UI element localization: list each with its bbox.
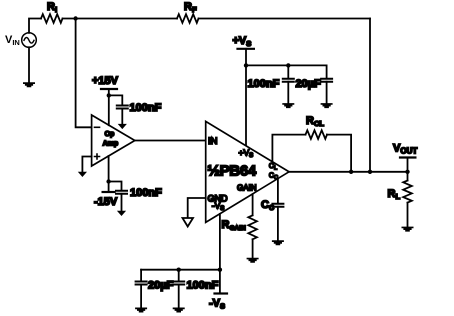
svg-text:20µF: 20µF [148, 280, 174, 292]
wire to 100nF cap [109, 182, 122, 191]
wire cap to ground [287, 82, 289, 103]
wire cap to ground [121, 194, 123, 211]
wire rail to capacitor C4 [326, 65, 328, 78]
node H VOUT junction [405, 170, 409, 174]
svg-text:-15V: -15V [94, 196, 118, 208]
node J -VS rail cap [177, 268, 181, 272]
ground arrow [117, 211, 126, 216]
wire cap to ground [178, 285, 180, 308]
wire rail to capacitor C5 [140, 270, 142, 281]
wire to capacitor C3 [287, 65, 289, 78]
resistor RF [177, 14, 199, 23]
wire cap to ground [277, 207, 279, 241]
svg-text:IN: IN [208, 136, 218, 147]
-VS decoupling rail [141, 269, 220, 271]
ground [135, 308, 147, 313]
wire node A to op-amp inverting input [76, 19, 92, 128]
-VS supply bar [215, 292, 228, 294]
svg-text:+VS: +VS [233, 35, 252, 48]
svg-text:Amp: Amp [103, 140, 119, 147]
+VS supply bar [238, 48, 254, 50]
output terminal VOUT bar [400, 156, 415, 158]
node G feedback junction [368, 170, 372, 174]
resistor RL [407, 172, 409, 181]
wire CC pin down [277, 179, 279, 203]
node I -VS rail [218, 268, 222, 272]
node A [73, 16, 77, 20]
wire CL pin up [272, 135, 305, 162]
source VIN [22, 33, 37, 48]
+VS decoupling rail [246, 64, 327, 66]
node B +15V decoupling [107, 93, 111, 97]
wire cap to ground [121, 109, 123, 125]
wire -VS pin down [219, 214, 221, 294]
wire RGAIN to ground [252, 239, 254, 257]
capacitor C1 100nF [117, 106, 128, 109]
svg-text:VOUT: VOUT [393, 142, 417, 155]
wire +15V to op-amp top [108, 89, 110, 125]
wire RCL to output [327, 135, 351, 172]
wire top rail from VIN to feedback corner [29, 19, 370, 33]
wire to 100nF cap [109, 95, 123, 105]
capacitor C4 20uF [321, 79, 332, 82]
ground [282, 103, 294, 108]
svg-text:RF: RF [184, 1, 197, 14]
ground [321, 103, 333, 108]
open triangle ground at GND pin [183, 218, 194, 227]
wire op-amp bottom to -15V [108, 156, 110, 192]
capacitor C2 100nF [116, 191, 127, 194]
svg-text:RCL: RCL [306, 115, 324, 128]
svg-text:GAIN: GAIN [237, 183, 257, 192]
capacitor C3 100nF [283, 79, 294, 82]
+15V supply bar [101, 88, 117, 90]
node F RCL output junction [349, 170, 353, 174]
wire RL to ground [407, 203, 409, 227]
capacitor C6 100nF [173, 282, 184, 285]
wire rail to capacitor C6 [178, 270, 180, 281]
svg-text:+15V: +15V [92, 75, 119, 87]
wire non-inverting input to ground [82, 157, 91, 172]
svg-text:Op: Op [105, 131, 115, 138]
node E +VS rail cap [286, 63, 290, 67]
ground arrow at op-amp + input [78, 172, 87, 177]
capacitor CC [272, 204, 283, 207]
svg-text:100nF: 100nF [130, 187, 162, 199]
svg-text:VIN: VIN [5, 34, 20, 47]
ground [402, 227, 414, 232]
capacitor C5 20uF [136, 282, 147, 285]
op-amp U1 [92, 115, 135, 166]
resistor RCL [306, 130, 328, 139]
ground [173, 308, 185, 313]
ground under VIN [23, 82, 35, 87]
svg-text:RL: RL [388, 188, 401, 201]
wire op-amp output to PB64 IN [135, 140, 206, 142]
ground [272, 240, 284, 245]
svg-text:100nF: 100nF [187, 280, 219, 292]
node C -15V decoupling [106, 179, 110, 183]
wire VIN to ground [28, 47, 30, 82]
wire PB64 output to VOUT [289, 171, 408, 173]
resistor RI [41, 14, 62, 23]
svg-text:100nF: 100nF [130, 102, 162, 114]
svg-text:RI: RI [47, 1, 57, 14]
wire +VS bar down to PB64 +Vs pin [245, 49, 247, 145]
node D +VS rail [244, 63, 248, 67]
ground arrow [118, 124, 127, 129]
wire cap to ground [326, 82, 328, 103]
wire GND pin [188, 198, 206, 218]
ground [247, 258, 259, 263]
resistor RGAIN [248, 215, 257, 239]
wire feedback from RF [369, 19, 371, 172]
svg-text:RGAIN: RGAIN [222, 219, 247, 232]
svg-text:20µF: 20µF [296, 78, 322, 90]
svg-text:100nF: 100nF [248, 78, 280, 90]
wire cap to ground [140, 285, 142, 308]
op-amp inverting input marker [95, 126, 100, 128]
wire GAIN pin down [252, 194, 254, 215]
op-amp non-inverting input marker [95, 154, 100, 159]
wire VOUT terminal to output node [407, 158, 409, 172]
power amp U2 1/2 PB64 [206, 121, 289, 222]
svg-text:½PB64: ½PB64 [207, 163, 256, 180]
svg-text:CC: CC [261, 199, 274, 212]
svg-text:-VS: -VS [209, 298, 225, 311]
-15V supply bar [103, 191, 115, 193]
